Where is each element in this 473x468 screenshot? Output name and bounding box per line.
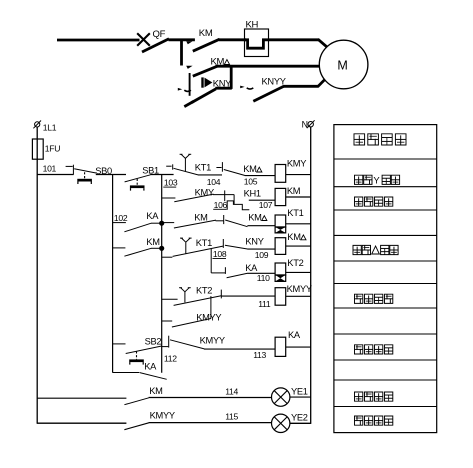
wire KH to motor [269, 38, 319, 41]
wire KNYY to motor [283, 85, 318, 88]
wire L1 supply [57, 39, 140, 42]
svg-text:114: 114 [225, 387, 238, 397]
node junction to delta branch [180, 40, 183, 66]
svg-text:1FU: 1FU [45, 144, 60, 154]
svg-text:KMY: KMY [195, 188, 214, 198]
contactor KM aux to node [113, 247, 126, 249]
lamp YE2 [272, 414, 290, 432]
table row motor delta run [353, 245, 361, 254]
table title short-circuit protection [354, 134, 365, 145]
svg-text:KM: KM [149, 386, 162, 396]
contactor KMYY NC row8 [162, 346, 169, 348]
pushbutton SB1 NO [125, 175, 151, 182]
svg-text:YE2: YE2 [291, 413, 308, 423]
svg-text:109: 109 [255, 250, 269, 260]
svg-text:KMYY: KMYY [150, 411, 175, 421]
wire number 111 [221, 295, 275, 297]
time relay contact KT1 row1 [166, 165, 171, 167]
contactor KM main contact [186, 41, 192, 44]
contactor interlock KM-delta NC row1 [216, 167, 221, 169]
coil KM-delta [275, 238, 286, 255]
svg-text:SB2: SB2 [145, 337, 162, 347]
wire number 107 [249, 199, 275, 201]
svg-text:M: M [337, 58, 347, 72]
svg-text:104: 104 [207, 177, 221, 187]
svg-text:108: 108 [213, 249, 227, 259]
svg-text:107: 107 [259, 200, 273, 210]
bus 103 vertical [161, 175, 163, 373]
svg-text:KA: KA [245, 263, 258, 273]
svg-text:QF: QF [153, 29, 166, 40]
time relay contact KT1 row4 [162, 256, 173, 258]
svg-text:SB1: SB1 [142, 165, 159, 175]
lamp YE1 [272, 388, 290, 406]
svg-text:106: 106 [214, 200, 228, 210]
svg-text:KMY: KMY [287, 159, 306, 169]
svg-text:Y: Y [373, 176, 380, 187]
svg-text:KT1: KT1 [287, 208, 303, 218]
contactor KM-delta contact [186, 66, 192, 69]
wire number 113 [204, 348, 275, 350]
svg-text:KM: KM [194, 213, 207, 223]
breaker QF [137, 33, 150, 46]
coil KMY [275, 165, 286, 183]
svg-text:KM: KM [287, 186, 300, 196]
svg-text:KM: KM [146, 237, 159, 247]
wire number 108 drop [210, 249, 212, 273]
wire KM coil to N bus [286, 196, 311, 198]
wire number 114 [149, 397, 272, 399]
wire delta branch to motor [216, 65, 320, 68]
table row high speed run 2 [355, 416, 363, 425]
wire YE2 to N bus [290, 422, 311, 424]
coil KMYY [275, 288, 286, 306]
svg-text:KH1: KH1 [244, 188, 261, 198]
coil KA [275, 337, 286, 356]
wire number 109 [247, 248, 275, 250]
interlock KM-delta NC row3 [225, 220, 247, 227]
node junction dot KM [160, 246, 164, 250]
svg-text:111: 111 [258, 299, 271, 309]
svg-text:KT1: KT1 [195, 163, 211, 173]
svg-text:103: 103 [164, 177, 178, 187]
svg-text:KM: KM [248, 213, 261, 223]
svg-text:1L1: 1L1 [43, 123, 57, 133]
svg-text:KA: KA [288, 330, 301, 340]
wire KM to KH [219, 38, 246, 41]
contactor KMYY aux row10 [37, 422, 126, 424]
function table frame [334, 125, 437, 433]
relay KA contact to node [113, 222, 126, 224]
wire YE1 to N bus [290, 396, 311, 398]
contactor KMY aux contact row2 [162, 197, 176, 199]
svg-text:102: 102 [114, 213, 128, 223]
wire QF to KM [169, 38, 195, 41]
node junction dot KA [160, 221, 164, 225]
bus N vertical [310, 127, 312, 424]
svg-text:KNY: KNY [213, 78, 231, 88]
thermal relay KH [245, 29, 269, 57]
fuse 1FU [32, 139, 43, 159]
relay KA self-hold contact row8b [113, 372, 140, 374]
svg-text:KH: KH [246, 20, 259, 31]
contactor KNY contact [189, 73, 191, 96]
wire KT1 coil to N bus [286, 223, 311, 225]
wire number 110 [247, 272, 275, 274]
svg-text:KT1: KT1 [196, 238, 212, 248]
node drop to KNY branch [230, 66, 233, 89]
wire to KT1 coil [247, 225, 275, 227]
svg-text:101: 101 [43, 163, 57, 173]
svg-text:KMYY: KMYY [200, 335, 225, 345]
contactor KMYY aux self-hold row7 [210, 296, 212, 318]
wire KA coil to N bus [286, 346, 311, 348]
svg-text:KNY: KNY [245, 237, 263, 247]
wire number 104 [198, 174, 222, 176]
coil KT2 time relay [275, 263, 286, 275]
phase terminal 1L1 [35, 122, 40, 127]
coil KM [275, 188, 286, 205]
svg-text:115: 115 [225, 411, 238, 421]
svg-text:KM: KM [199, 28, 213, 39]
relay KA contact row5 [211, 272, 225, 274]
wire 101 [37, 174, 73, 176]
svg-text:KA: KA [144, 361, 157, 371]
svg-text:KNYY: KNYY [262, 76, 286, 86]
wire KM to KMdelta [216, 220, 224, 222]
table row motor start [355, 197, 363, 206]
contactor KM aux contact row3 [162, 222, 175, 224]
svg-text:110: 110 [257, 273, 270, 283]
table row high speed run [355, 345, 363, 354]
wire KMdelta coil to N bus [286, 245, 311, 247]
wire SB1 to node 103 [150, 174, 173, 176]
svg-text:KA: KA [146, 211, 159, 221]
motor M [319, 40, 368, 89]
svg-text:KT2: KT2 [196, 286, 212, 296]
wire number 105 [245, 175, 275, 177]
pushbutton SB2 NO [113, 343, 126, 345]
svg-text:KM: KM [287, 232, 300, 242]
wire KMYY coil to N bus [286, 295, 311, 297]
table row motor Y start [355, 175, 363, 184]
table row motor run [355, 392, 363, 401]
bus 102 vertical [112, 175, 114, 373]
svg-text:KMYY: KMYY [287, 284, 312, 294]
wire SB0 to SB1 [96, 174, 126, 176]
svg-text:KMYY: KMYY [196, 313, 221, 323]
svg-text:YE1: YE1 [291, 386, 308, 396]
svg-text:112: 112 [164, 354, 177, 364]
wire 106 [213, 194, 234, 196]
coil KT1 time relay [275, 215, 286, 227]
table row high speed start [355, 294, 363, 303]
svg-text:105: 105 [244, 177, 258, 187]
wire KT2 coil to N bus [286, 271, 311, 273]
contactor KNY aux NC row4 [225, 245, 248, 249]
time relay contact KT2 row6 [162, 298, 178, 300]
contactor KM aux row9 [37, 397, 126, 399]
pushbutton SB0 NC [66, 165, 73, 167]
svg-text:113: 113 [253, 350, 266, 360]
svg-text:KT2: KT2 [287, 258, 303, 268]
svg-text:KM: KM [243, 164, 256, 174]
wire number 115 [149, 422, 272, 424]
contactor KNYY contact [240, 86, 244, 89]
wire KMY coil to N bus [286, 174, 311, 176]
thermal contact KH1 [233, 195, 235, 205]
bus L from fuse down [36, 127, 38, 424]
